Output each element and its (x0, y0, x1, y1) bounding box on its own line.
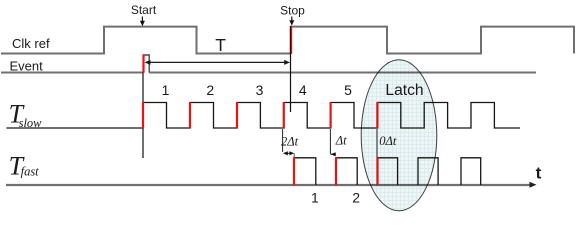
svg-text:Stop: Stop (280, 3, 305, 17)
arrow Start marker (140, 17, 145, 27)
annotation 2dt reference tick (282, 129, 284, 152)
svg-text:Event: Event (10, 59, 44, 74)
annotation dt arrow (331, 152, 336, 156)
signal Tslow waveform (7, 103, 521, 129)
svg-text:4: 4 (299, 82, 307, 98)
signal Clk ref waveform (1, 27, 574, 54)
svg-text:Clk ref: Clk ref (12, 36, 50, 51)
svg-text:Δt: Δt (335, 134, 347, 148)
Event pulse outline (144, 55, 150, 73)
arrow Stop marker (289, 17, 294, 26)
red rising edge of Event pulse (142, 54, 144, 73)
svg-text:T: T (215, 35, 226, 55)
signal Event baseline (1, 72, 536, 74)
svg-text:0Δt: 0Δt (379, 134, 397, 148)
label Tslow (9, 99, 43, 130)
svg-text:fast: fast (21, 164, 40, 178)
svg-text:3: 3 (256, 82, 264, 98)
cursor line Start (vertical) (142, 73, 144, 159)
svg-text:1: 1 (311, 189, 319, 205)
red rising edges of Tslow (1-6) (143, 102, 377, 129)
svg-text:t: t (536, 163, 542, 182)
red rising edge of Clk ref at Stop (290, 26, 292, 54)
svg-text:Latch: Latch (385, 82, 423, 99)
annotation 2dt arrow (283, 151, 294, 157)
measurement arrow T (double-headed) (145, 60, 290, 65)
label Tfast (9, 152, 40, 181)
latch ellipse (361, 60, 437, 211)
count labels 1-5 above Tslow (162, 82, 353, 98)
annotation 0dt reference line (376, 129, 378, 158)
svg-text:2Δt: 2Δt (281, 134, 299, 148)
svg-text:5: 5 (344, 82, 352, 98)
svg-text:2: 2 (352, 189, 360, 205)
svg-text:Start: Start (131, 3, 157, 17)
signal Tfast pulses (294, 158, 481, 185)
svg-text:2: 2 (206, 82, 214, 98)
cursor line Stop (vertical) (290, 26, 292, 112)
svg-text:1: 1 (162, 82, 170, 98)
annotation dt reference tick (329, 129, 331, 155)
count labels 1-2 below Tfast (311, 189, 360, 205)
time axis with arrow (6, 182, 537, 188)
red rising edges of Tfast (1-3) (294, 157, 378, 185)
